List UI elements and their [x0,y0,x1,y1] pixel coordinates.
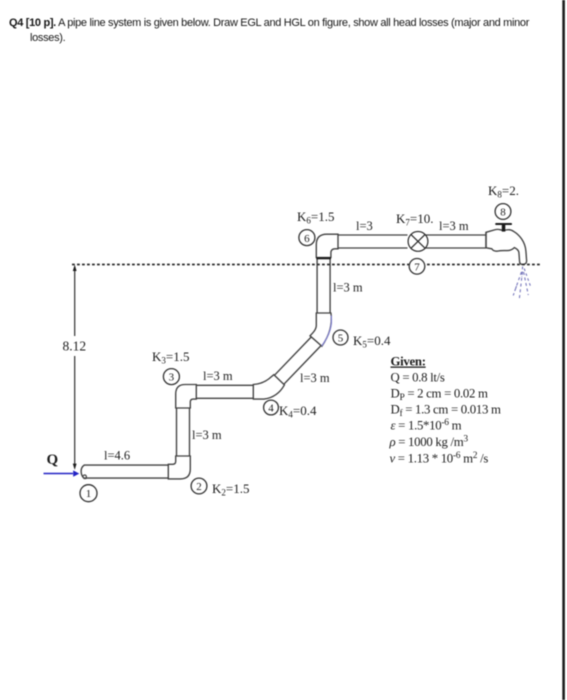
svg-text:K6=1.5: K6=1.5 [297,209,334,226]
pipe inlet flare [81,465,85,479]
svg-text:losses).: losses). [30,32,66,44]
Given block [389,355,501,466]
svg-text:l=4.6: l=4.6 [104,449,130,463]
node circle 8 [495,204,511,220]
dimension line 8.12 upper part with up arrow [73,265,77,470]
node circle 2 [191,478,207,494]
svg-text:Given:: Given: [391,355,426,369]
svg-text:K5=0.4: K5=0.4 [353,333,391,350]
svg-text:K3=1.5: K3=1.5 [152,349,189,366]
svg-text:K7=10.: K7=10. [396,211,433,228]
bend fitting 4 [253,375,284,399]
svg-text:Q: Q [47,452,59,468]
bend fitting 5 [310,313,331,346]
elbow fitting 6 [316,234,338,257]
pipe segment S6a horizontal l=3 (6 to valve) [338,235,408,248]
node circle 4 [264,400,279,415]
node circle 6 [299,230,315,246]
svg-text:DP = 2 cm = 0.02 m: DP = 2 cm = 0.02 m [391,387,488,404]
elbow fitting 2 [168,456,190,479]
svg-text:1: 1 [86,488,92,500]
pipe segment S4 diagonal l=3 m (4 to 5) [274,337,321,385]
svg-text:6: 6 [304,233,310,245]
header question text [9,17,530,44]
svg-text:Df = 1.3 cm = 0.013 m: Df = 1.3 cm = 0.013 m [391,403,501,420]
faucet body and spout [486,229,527,264]
svg-text:K2=1.5: K2=1.5 [212,481,249,498]
svg-text:ν = 1.13 * 10-6 m2 /s: ν = 1.13 * 10-6 m2 /s [390,451,489,466]
svg-text:K8=2.: K8=2. [488,183,519,200]
svg-text:l=3: l=3 [356,219,373,233]
page right border line [562,0,565,700]
svg-text:ρ = 1000 kg /m3: ρ = 1000 kg /m3 [389,435,469,450]
svg-text:l=3 m: l=3 m [333,281,363,295]
faucet handle bar [495,223,512,225]
svg-text:Q = 0.8 lt/s: Q = 0.8 lt/s [391,371,445,385]
node circle 1 [80,485,97,502]
datum dashed line [72,264,540,266]
valve body (circle with X) K7 [408,232,428,252]
svg-text:8: 8 [500,206,506,218]
svg-text:5: 5 [338,332,344,344]
node circle 3 [163,369,179,385]
water spray dashed blue [513,267,531,301]
pipe segment S5 vertical l=3 m (5 to 6) [317,258,330,314]
K labels [104,183,519,498]
svg-text:l=3 m: l=3 m [300,371,330,385]
svg-text:l=3 m: l=3 m [192,428,222,442]
elbow fitting 3 [176,385,197,409]
svg-text:Q4 [10 p]. A pipe line system: Q4 [10 p]. A pipe line system is given b… [9,17,530,29]
pipe segment S6b horizontal l=3 m (valve to faucet) [426,235,487,248]
node circle 7 [409,259,425,275]
faucet handle stem [502,225,506,232]
svg-text:2: 2 [196,481,202,493]
bend 5 blue outer arc [322,316,332,347]
elbow 6 lower joint collar [316,257,331,259]
svg-text:3: 3 [169,372,175,384]
pipe segment S2 vertical l=3 m (2 to 3) [177,408,190,456]
svg-text:4: 4 [268,402,274,414]
faucet joint line [485,232,487,248]
svg-text:8.12: 8.12 [63,339,87,354]
svg-text:ε = 1.5*10-6 m: ε = 1.5*10-6 m [391,418,462,433]
svg-text:l=3 m: l=3 m [203,369,233,383]
pipe inlet curl [83,475,86,479]
pipe segment S3 horizontal l=3 m (3 to 4) [196,385,253,398]
pipe segment S1 inlet horizontal l=4.6 [84,465,168,478]
svg-text:l=3 m: l=3 m [439,219,469,233]
svg-text:K4=0.4: K4=0.4 [279,403,317,420]
dimension line lower part with down arrow [74,356,76,467]
Q blue inflow arrow [44,470,80,476]
svg-text:7: 7 [414,262,420,274]
node circle 5 [333,330,348,345]
